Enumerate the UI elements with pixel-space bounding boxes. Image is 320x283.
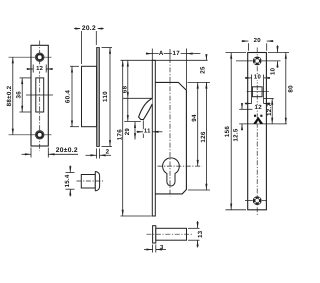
strike plate mid centerline: [26, 94, 53, 96]
pin centerline: [147, 233, 194, 235]
dimension 12.7: [271, 99, 273, 124]
svg-text:156: 156: [224, 126, 231, 137]
long plate top extension line: [226, 52, 247, 54]
side view faceplate bar: [97, 48, 100, 147]
dimension 10 vertical (hole to top): [277, 45, 279, 52]
svg-text:12: 12: [36, 65, 44, 72]
dimension 2 (side plate thickness): [96, 149, 98, 159]
dimension 176: [122, 60, 124, 216]
euro profile cylinder hole: [163, 158, 180, 186]
dimension 13 (pin diameter): [188, 227, 200, 229]
svg-text:126: 126: [200, 131, 207, 142]
svg-text:80: 80: [287, 85, 294, 93]
dimension 60.4 (side case height): [70, 65, 79, 67]
cylinder horizontal centerline: [158, 165, 203, 167]
dimension 68 (hook): [127, 60, 129, 98]
bushing flange: [95, 172, 99, 191]
reference line hook mouth: [127, 98, 129, 121]
svg-text:12: 12: [255, 104, 263, 111]
dimension 20±0.2 (strike plate width): [30, 148, 32, 158]
strike plate vertical centerline: [39, 41, 41, 152]
long plate outline: [248, 53, 267, 210]
dimension 80: [285, 53, 287, 124]
dimension 88±0.2 (strike plate): [12, 57, 14, 135]
dimension 12 (strike plate): [32, 65, 34, 73]
main faceplate top extension line: [121, 59, 208, 61]
dimension 12.5: [241, 104, 243, 110]
dimension 20.2 (side depth): [81, 31, 83, 64]
long plate screw hole top: [253, 56, 262, 65]
dimension 3 (pin head): [152, 245, 154, 253]
svg-text:25: 25: [200, 66, 207, 74]
svg-text:3: 3: [160, 244, 164, 251]
svg-text:88±0.2: 88±0.2: [6, 85, 13, 106]
dimension 36 (strike plate cutout): [20, 77, 31, 79]
side view case: [82, 66, 97, 126]
square bottom extension right: [264, 98, 274, 100]
bushing centerline: [77, 180, 104, 182]
main lock case outline: [155, 82, 186, 193]
dimension 20 (long plate width): [247, 43, 249, 50]
bushing body: [81, 175, 95, 189]
svg-text:176: 176: [116, 129, 123, 140]
svg-text:29: 29: [124, 128, 131, 136]
strike plate screw hole top: [35, 53, 44, 62]
pin head: [153, 226, 156, 243]
long plate top hole centerline: [236, 60, 281, 62]
dimension A and 17 (top): [151, 49, 153, 61]
dimension 156: [230, 53, 232, 210]
svg-text:13: 13: [197, 230, 204, 238]
dimension 11: [137, 131, 144, 133]
main faceplate: [152, 60, 155, 216]
dimension 12 (square): [245, 103, 252, 105]
strike plate bottom hole centerline: [9, 134, 52, 136]
svg-text:60.4: 60.4: [65, 90, 72, 104]
faceplate bottom extension line: [121, 215, 152, 217]
Hafele logo dots: [254, 115, 256, 117]
svg-text:2: 2: [106, 149, 110, 156]
dimension 126: [205, 82, 207, 190]
recess line upper left: [239, 108, 252, 110]
case bottom extension line: [188, 189, 210, 191]
svg-text:12.5: 12.5: [232, 128, 239, 141]
svg-text:12.7: 12.7: [266, 103, 273, 116]
Hafele logo triangle: [253, 117, 263, 124]
long plate bottom extension line: [226, 209, 247, 211]
main vertical centerline: [169, 58, 171, 197]
square spindle cutout: [252, 87, 262, 97]
hook bolt: [139, 98, 153, 119]
svg-text:20±0.2: 20±0.2: [56, 147, 78, 154]
svg-text:10: 10: [270, 67, 277, 75]
dimension 94: [197, 82, 199, 166]
svg-text:94: 94: [191, 114, 198, 122]
svg-text:17: 17: [173, 50, 181, 57]
dimension 10 horizontal (square width): [251, 75, 253, 104]
strike plate cutout: [36, 78, 44, 112]
strike plate top hole centerline: [9, 56, 52, 58]
svg-text:15.4: 15.4: [64, 174, 71, 187]
svg-text:A: A: [159, 50, 164, 57]
dimension 15.4 (bushing): [66, 172, 75, 174]
svg-text:20: 20: [254, 37, 262, 44]
hook tip extension line vertical: [142, 121, 144, 139]
strike plate screw hole bottom: [35, 131, 44, 140]
dimension 110 (side plate height): [102, 47, 113, 49]
pin body: [156, 228, 187, 240]
case top extension line: [188, 81, 211, 83]
svg-text:110: 110: [102, 91, 109, 102]
long plate screw hole bottom: [253, 196, 262, 205]
dimension 29: [134, 122, 136, 140]
strike plate SP1 outline: [31, 45, 48, 146]
svg-text:36: 36: [16, 91, 23, 99]
square cutout horizontal centerline: [247, 91, 269, 93]
svg-text:11: 11: [144, 127, 151, 134]
dimension 25: [205, 55, 207, 61]
case right extension line: [185, 49, 187, 90]
long plate top-right extension: [268, 52, 289, 54]
hook tip extension line horizontal: [124, 120, 141, 122]
hook bolt top edge: [123, 97, 153, 99]
long plate bottom hole centerline: [245, 200, 266, 202]
long plate vertical centerline: [256, 48, 258, 216]
svg-text:20.2: 20.2: [82, 25, 96, 32]
recess line lower: [239, 123, 287, 125]
svg-text:10: 10: [254, 74, 262, 81]
